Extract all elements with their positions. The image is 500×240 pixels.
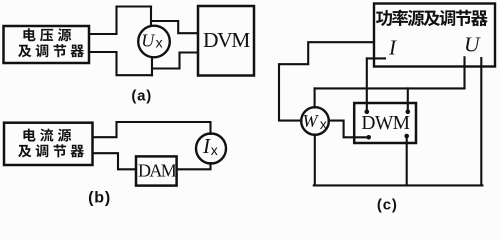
box: power source & regulator (c) — [374, 4, 495, 67]
wire: I tick down to DWM top-left terminal — [366, 58, 368, 111]
svg-text:x: x — [211, 142, 218, 158]
wire: DWM bottom-right terminal to bottom rail — [406, 136, 408, 185]
wire: bottom rail — [314, 184, 483, 186]
wire: Wx bottom stub to bottom rail — [314, 135, 316, 186]
box DVM — [198, 6, 254, 76]
svg-text:(c): (c) — [377, 197, 398, 214]
label: 功率源及调节器 in (c) box — [376, 10, 392, 26]
wire: (b) lower output to DAM — [93, 153, 137, 169]
svg-text:DWM: DWM — [361, 113, 409, 134]
label: 电流源 / 及调节器 in (b) box — [23, 129, 35, 142]
wire: Wx right to DWM bottom-left terminal — [329, 121, 369, 138]
wire: I terminal to Wx left (staircase) — [279, 42, 374, 120]
wire: DAM output to Ix bottom — [177, 163, 211, 169]
junction dot: DWM top-left terminal — [365, 110, 370, 115]
wire: I terminal tick through left edge — [367, 57, 385, 59]
box DAM — [136, 156, 177, 185]
svg-text:I: I — [202, 134, 211, 158]
wire: (a) branch from Ux bottom to DVM lower terminal — [152, 53, 198, 69]
wire: (a) Ux bottom stub — [151, 58, 153, 76]
wire: (a) lower output of source box — [89, 52, 152, 75]
wire: (a) upper output of source box — [89, 7, 151, 35]
svg-text:(a): (a) — [131, 87, 152, 104]
junction dot: DWM bottom-right terminal — [404, 134, 409, 139]
svg-text:DAM: DAM — [138, 160, 177, 180]
wire: top rail from Wx to U-left tick — [315, 87, 465, 89]
junction dot: DWM top-right terminal — [406, 110, 411, 115]
box DWM — [354, 103, 416, 143]
wattmeter circle Wx — [301, 107, 329, 135]
wire: Wx top stub — [314, 88, 316, 107]
ammeter circle Ix — [196, 134, 226, 164]
wire: (a) branch from Ux stub to DVM upper terminal — [151, 21, 198, 33]
svg-text:I: I — [388, 35, 397, 59]
junction dot: DWM bottom-left terminal — [366, 135, 371, 140]
box: current source & regulator (b) — [4, 123, 93, 165]
svg-text:DVM: DVM — [203, 28, 250, 52]
svg-text:(b): (b) — [88, 190, 111, 207]
box: voltage source & regulator (a) — [4, 26, 90, 63]
wire: U-right tick down to bottom rail — [480, 58, 482, 185]
wire: U-left tick up into box — [463, 57, 465, 88]
wire: (b) upper output to Ix top — [93, 122, 211, 137]
label: 电压源 / 及调节器 in (a) box — [23, 28, 35, 41]
svg-text:W: W — [303, 111, 320, 131]
svg-text:U: U — [141, 31, 155, 51]
svg-text:x: x — [320, 116, 327, 132]
svg-text:x: x — [156, 34, 163, 50]
svg-text:U: U — [464, 32, 481, 56]
wire: top rail stub down to DWM top-right terminal — [407, 88, 409, 111]
wire: (a) top stub into Ux circle — [150, 7, 152, 26]
voltmeter circle Ux — [138, 26, 170, 58]
